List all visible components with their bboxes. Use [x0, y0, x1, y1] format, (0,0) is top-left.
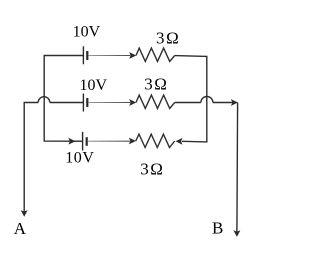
wire: middle branch from left hop to battery V2	[50, 102, 84, 104]
svg-text:10V: 10V	[80, 77, 108, 94]
battery V1 10V (top branch)	[83, 46, 87, 64]
wire: middle branch right section to corner, down lead to terminal B	[213, 103, 238, 234]
wire: middle branch connector battery V2 to resistor R2 (thin gray with arrow)	[88, 102, 130, 104]
arrowhead: bottom branch pointing left after resistor R3	[176, 138, 183, 145]
battery V2 10V (middle branch)	[83, 94, 87, 112]
arrowhead: current direction into R2 (middle)	[129, 99, 136, 106]
wire: bottom branch connector battery V3 to resistor R3 (thin gray with arrow)	[88, 140, 130, 142]
svg-text:3Ω: 3Ω	[156, 29, 180, 48]
resistor R3 3ohm (bottom branch zigzag)	[136, 134, 175, 147]
arrowhead: terminal B lead pointing down	[233, 230, 240, 237]
svg-text:3Ω: 3Ω	[144, 74, 168, 93]
wire: left rail with top-left and bottom-left corners	[44, 56, 83, 142]
arrowhead: current direction into R3 (bottom)	[129, 138, 136, 145]
arrowhead: bottom branch pointing right before battery V3	[68, 138, 75, 145]
wire hop: middle branch jumps right rail	[201, 97, 213, 103]
svg-text:B: B	[212, 218, 223, 237]
resistor R1 3ohm (top branch zigzag)	[136, 48, 175, 61]
wire: middle branch from resistor R2 to right hop	[175, 102, 201, 104]
wire: top branch connector battery V1 to resistor R1 (thin gray with arrow)	[88, 55, 130, 57]
wire: bottom branch arrow tip to battery V3	[74, 140, 83, 142]
wire: middle branch left lead to terminal A	[24, 103, 38, 213]
svg-text:10V: 10V	[73, 24, 101, 41]
svg-text:A: A	[14, 219, 27, 238]
wire hop: middle branch jumps left rail	[38, 97, 50, 103]
arrowhead: middle branch pointing right at corner to B	[231, 99, 238, 106]
arrowhead: terminal A lead pointing down	[21, 210, 28, 217]
battery V3 10V (bottom branch)	[83, 132, 87, 151]
svg-text:10V: 10V	[65, 150, 94, 167]
wire: top branch right section (resistor R1 to top-right corner, down right rail)	[175, 56, 207, 142]
arrowhead: current direction into R1 (top)	[129, 52, 136, 59]
svg-text:3Ω: 3Ω	[140, 159, 164, 178]
resistor R2 3ohm (middle branch zigzag)	[136, 95, 175, 108]
